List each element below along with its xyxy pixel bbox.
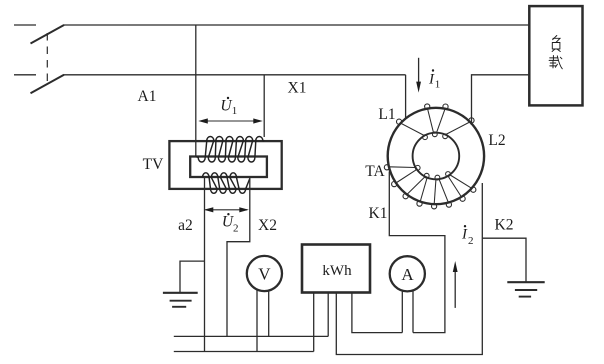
TA winding inner bumps bbox=[415, 132, 450, 180]
transformer TV inner core box bbox=[190, 157, 267, 178]
switch QS top blade bbox=[31, 25, 65, 44]
svg-text:kWh: kWh bbox=[322, 263, 352, 279]
arrow I1 down bbox=[416, 58, 421, 93]
svg-text:TA: TA bbox=[365, 163, 385, 180]
svg-text:K1: K1 bbox=[369, 205, 388, 222]
ammeter A circle bbox=[390, 256, 425, 291]
wire L2 riser and top run to load bbox=[472, 75, 530, 125]
arrow U2 double bbox=[204, 207, 249, 212]
arrow U1 double bbox=[198, 118, 262, 123]
label load char zai bbox=[549, 56, 562, 69]
wire kWh terminal 2 bbox=[327, 293, 329, 337]
wire bottom bus 2 bbox=[174, 351, 314, 353]
wire top bus A phase bbox=[64, 24, 530, 26]
wire V right terminal bbox=[268, 290, 270, 336]
switch QS top pole stub bbox=[14, 24, 36, 26]
wire kWh terminal 4 to ammeter bbox=[352, 293, 402, 333]
svg-text:L1: L1 bbox=[378, 106, 395, 123]
wire A1 riser bbox=[195, 25, 197, 158]
svg-text:2: 2 bbox=[233, 222, 239, 234]
ground G1 bbox=[163, 293, 198, 307]
label load char fu bbox=[552, 36, 560, 52]
transformer TV primary coil bbox=[196, 137, 264, 163]
svg-text:L2: L2 bbox=[488, 132, 505, 149]
svg-text:TV: TV bbox=[143, 156, 164, 173]
load box bbox=[529, 6, 582, 105]
switch QS bottom blade bbox=[31, 75, 65, 94]
current transformer TA outer ring bbox=[388, 108, 484, 204]
current transformer TA inner ring bbox=[413, 133, 460, 180]
TA winding face lines bbox=[389, 109, 472, 205]
wire a2 drop bbox=[204, 178, 206, 352]
svg-text:X1: X1 bbox=[288, 80, 307, 97]
svg-text:V: V bbox=[258, 265, 271, 284]
voltmeter V circle bbox=[247, 256, 282, 291]
ground G2 tap wire bbox=[482, 238, 526, 282]
svg-text:a2: a2 bbox=[178, 217, 193, 234]
meter kWh box bbox=[302, 245, 370, 293]
svg-text:X2: X2 bbox=[258, 217, 277, 234]
wire kWh terminal 3 to K2 line bbox=[336, 183, 482, 355]
svg-text:1: 1 bbox=[435, 79, 441, 91]
wire second line to L1 bbox=[64, 74, 406, 76]
arrow I2 up bbox=[453, 261, 458, 308]
transformer TV outer box bbox=[169, 141, 281, 189]
label U2 bbox=[222, 213, 239, 234]
wire X2 drop with jog bbox=[227, 178, 250, 336]
wire V left terminal bbox=[256, 290, 258, 352]
wire kWh terminal 1 bbox=[313, 293, 315, 352]
switch QS linkage dashed bbox=[46, 33, 48, 84]
wire A left terminal bbox=[401, 291, 403, 333]
label U1 bbox=[220, 97, 237, 117]
svg-text:2: 2 bbox=[468, 235, 474, 247]
wire X1 riser bbox=[263, 75, 265, 137]
wire L1 riser bbox=[405, 75, 407, 118]
wire A right terminal bbox=[412, 291, 414, 333]
svg-text:K2: K2 bbox=[495, 217, 514, 234]
svg-text:A1: A1 bbox=[138, 88, 157, 105]
transformer TV secondary coil bbox=[203, 173, 250, 194]
TA winding outer bumps bbox=[384, 104, 476, 209]
label I1 bbox=[428, 69, 440, 90]
ground G1 tap wire bbox=[180, 261, 205, 293]
wire A to K1 riser bbox=[389, 172, 445, 333]
svg-text:A: A bbox=[401, 265, 414, 284]
switch QS bottom pole stub bbox=[14, 74, 36, 76]
svg-text:1: 1 bbox=[232, 105, 238, 117]
svg-text:I: I bbox=[461, 227, 468, 243]
label I2 bbox=[461, 225, 474, 247]
wire bottom bus 1 bbox=[174, 335, 328, 337]
ground G2 bbox=[507, 282, 544, 296]
